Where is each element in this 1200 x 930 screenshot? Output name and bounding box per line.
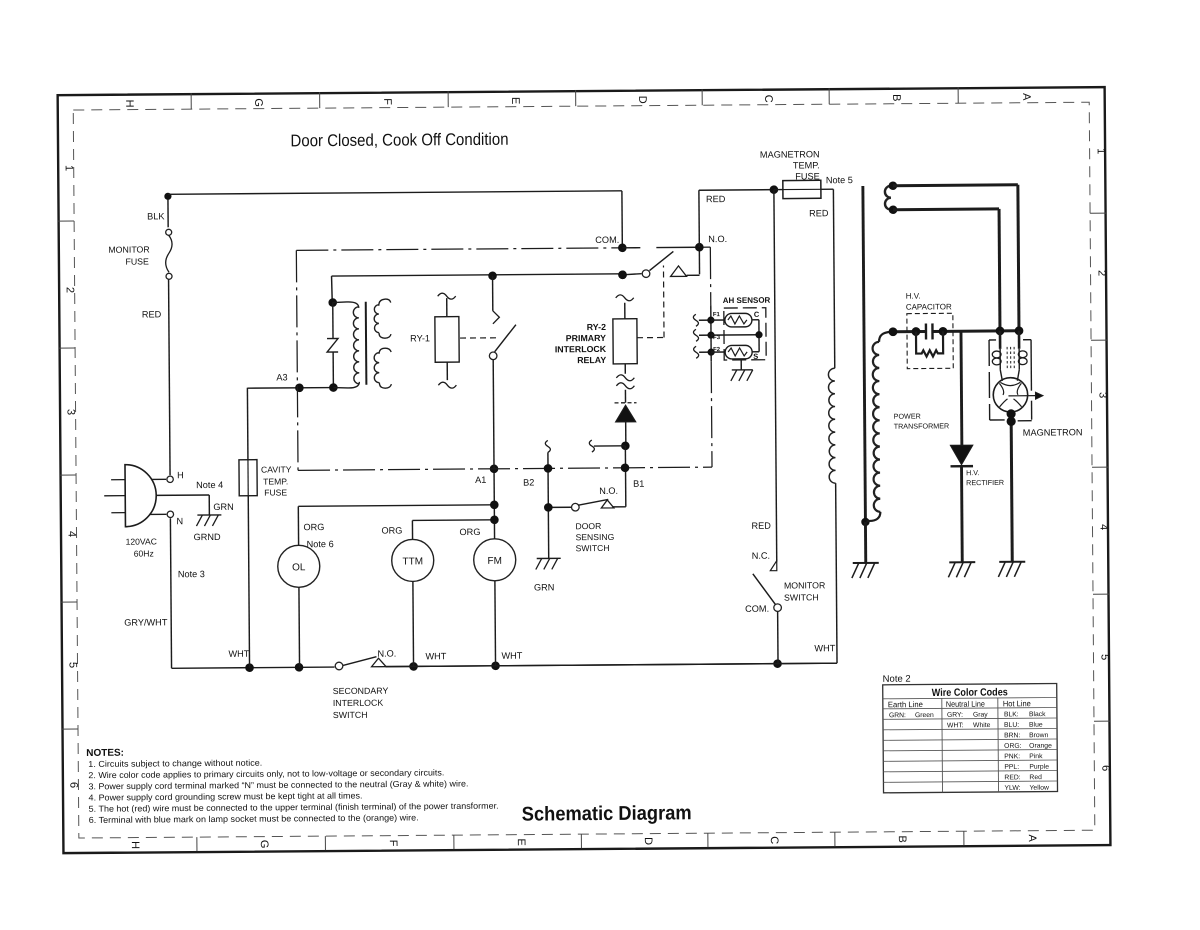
svg-text:SECONDARY: SECONDARY <box>333 686 389 696</box>
svg-text:F: F <box>381 98 393 105</box>
svg-text:1: 1 <box>1095 148 1107 154</box>
svg-text:A: A <box>1026 834 1038 842</box>
svg-text:GRY:: GRY: <box>947 712 963 719</box>
svg-text:CAPACITOR: CAPACITOR <box>906 302 952 311</box>
svg-text:N.O.: N.O. <box>377 649 396 659</box>
svg-text:GRN: GRN <box>534 582 554 592</box>
svg-text:WHT: WHT <box>228 649 249 659</box>
svg-text:F3: F3 <box>713 335 721 341</box>
svg-text:RED: RED <box>706 194 726 204</box>
svg-text:Red: Red <box>1029 774 1042 781</box>
svg-text:BLK: BLK <box>147 211 165 221</box>
svg-text:H.V.: H.V. <box>906 292 921 301</box>
svg-text:BLK:: BLK: <box>1004 711 1019 718</box>
svg-text:GRY/WHT: GRY/WHT <box>124 617 168 627</box>
svg-text:WHT: WHT <box>501 651 522 661</box>
svg-text:4: 4 <box>1097 524 1109 530</box>
svg-text:Gray: Gray <box>973 712 988 719</box>
svg-text:Brown: Brown <box>1029 732 1049 739</box>
svg-text:MONITOR: MONITOR <box>108 244 149 254</box>
svg-text:Note 6: Note 6 <box>307 539 334 549</box>
svg-text:C: C <box>768 836 780 844</box>
svg-text:E: E <box>509 97 521 104</box>
svg-text:2: 2 <box>1096 270 1108 276</box>
svg-text:FUSE: FUSE <box>125 256 149 266</box>
svg-text:F2: F2 <box>713 347 721 353</box>
svg-text:RED:: RED: <box>1004 774 1020 781</box>
svg-text:WHT: WHT <box>425 651 446 661</box>
svg-text:RELAY: RELAY <box>577 355 606 365</box>
svg-text:WHT:: WHT: <box>947 722 964 729</box>
svg-text:TRANSFORMER: TRANSFORMER <box>894 421 950 430</box>
svg-text:H: H <box>123 100 135 108</box>
svg-text:MAGNETRON: MAGNETRON <box>1023 427 1083 437</box>
svg-text:ORG: ORG <box>459 527 480 537</box>
svg-text:4. Power supply cord groundin: 4. Power supply cord grounding screw mus… <box>89 790 363 802</box>
svg-text:RED: RED <box>809 208 829 218</box>
svg-text:BRN:: BRN: <box>1004 732 1020 739</box>
svg-text:D: D <box>636 96 648 104</box>
svg-text:Blue: Blue <box>1029 722 1043 729</box>
svg-text:GRN: GRN <box>213 502 233 512</box>
svg-text:White: White <box>973 722 991 729</box>
svg-text:SWITCH: SWITCH <box>576 543 610 553</box>
svg-text:H: H <box>129 841 141 849</box>
svg-text:POWER: POWER <box>894 412 921 421</box>
svg-text:WHT: WHT <box>814 643 835 653</box>
svg-text:FUSE: FUSE <box>264 487 287 497</box>
svg-text:TEMP.: TEMP. <box>793 160 820 170</box>
svg-text:CAVITY: CAVITY <box>261 464 292 474</box>
svg-text:Black: Black <box>1029 711 1046 718</box>
svg-text:C: C <box>754 310 760 319</box>
svg-text:Earth Line: Earth Line <box>888 700 924 709</box>
svg-text:DOOR: DOOR <box>575 521 601 531</box>
svg-text:E: E <box>515 838 527 845</box>
svg-text:120VAC: 120VAC <box>126 536 157 546</box>
svg-text:B: B <box>896 835 908 842</box>
svg-text:SENSING: SENSING <box>576 532 615 542</box>
svg-text:Purple: Purple <box>1029 764 1049 771</box>
svg-text:5: 5 <box>1098 654 1110 660</box>
svg-text:Pink: Pink <box>1029 753 1043 760</box>
svg-text:B: B <box>890 94 902 101</box>
svg-text:NOTES:: NOTES: <box>86 748 124 759</box>
svg-text:RECTIFIER: RECTIFIER <box>966 478 1004 487</box>
svg-text:Note 4: Note 4 <box>196 480 223 490</box>
svg-text:INTERLOCK: INTERLOCK <box>333 698 384 708</box>
svg-text:N.O.: N.O. <box>708 234 727 244</box>
svg-text:COM.: COM. <box>595 235 619 245</box>
svg-text:Note 3: Note 3 <box>178 569 205 579</box>
svg-text:MONITOR: MONITOR <box>784 580 825 590</box>
svg-text:Door Closed, Cook Off Conditio: Door Closed, Cook Off Condition <box>290 130 508 151</box>
svg-text:G: G <box>252 98 264 107</box>
svg-text:ORG:: ORG: <box>1004 743 1022 750</box>
svg-text:60Hz: 60Hz <box>134 548 154 558</box>
svg-text:AH SENSOR: AH SENSOR <box>723 296 771 305</box>
svg-text:5: 5 <box>66 662 78 668</box>
svg-text:PPL:: PPL: <box>1004 764 1019 771</box>
svg-text:COM.: COM. <box>745 604 769 614</box>
svg-text:MAGNETRON: MAGNETRON <box>760 149 820 159</box>
svg-text:S: S <box>753 352 758 361</box>
svg-text:TEMP.: TEMP. <box>263 476 288 486</box>
svg-text:PNK:: PNK: <box>1004 753 1020 760</box>
svg-text:B1: B1 <box>633 479 644 489</box>
svg-text:BLU:: BLU: <box>1004 722 1019 729</box>
svg-text:Orange: Orange <box>1029 743 1052 750</box>
svg-text:Note 2: Note 2 <box>883 674 911 685</box>
svg-text:N.O.: N.O. <box>599 486 618 496</box>
svg-text:OL: OL <box>292 562 306 573</box>
svg-text:H.V.: H.V. <box>966 468 979 477</box>
svg-text:F1: F1 <box>713 312 721 318</box>
svg-text:1. Circuits subject to change: 1. Circuits subject to change without no… <box>88 758 262 769</box>
svg-text:F: F <box>387 840 399 847</box>
svg-text:SWITCH: SWITCH <box>333 710 368 720</box>
svg-text:C: C <box>762 95 774 103</box>
svg-text:N.C.: N.C. <box>752 551 770 561</box>
svg-text:TTM: TTM <box>402 556 423 567</box>
svg-text:SWITCH: SWITCH <box>784 592 819 602</box>
svg-text:4: 4 <box>65 531 77 537</box>
svg-text:ORG: ORG <box>381 526 402 536</box>
svg-text:A3: A3 <box>276 372 287 382</box>
svg-text:Green: Green <box>915 712 934 719</box>
svg-text:FM: FM <box>487 556 502 567</box>
svg-text:A1: A1 <box>475 475 486 485</box>
svg-text:Yellow: Yellow <box>1029 785 1049 792</box>
svg-text:FUSE: FUSE <box>795 171 820 181</box>
svg-text:B2: B2 <box>523 478 534 488</box>
svg-text:Schematic Diagram: Schematic Diagram <box>522 802 692 825</box>
svg-text:Note 5: Note 5 <box>826 175 853 185</box>
svg-text:ORG: ORG <box>303 522 324 532</box>
svg-text:RED: RED <box>751 521 771 531</box>
svg-text:GRND: GRND <box>194 532 221 542</box>
svg-text:6: 6 <box>1099 765 1111 771</box>
svg-text:Wire Color Codes: Wire Color Codes <box>932 686 1008 699</box>
svg-text:2: 2 <box>64 287 76 293</box>
svg-text:3: 3 <box>1096 392 1108 398</box>
svg-text:1: 1 <box>63 165 75 171</box>
svg-text:RY-2: RY-2 <box>587 322 606 332</box>
svg-text:3: 3 <box>65 409 77 415</box>
svg-text:RED: RED <box>142 309 162 319</box>
svg-text:Neutral Line: Neutral Line <box>946 700 986 709</box>
svg-text:H: H <box>177 470 184 480</box>
svg-text:GRN:: GRN: <box>889 712 906 719</box>
svg-text:G: G <box>258 840 270 849</box>
svg-text:YLW:: YLW: <box>1004 785 1020 792</box>
svg-text:6: 6 <box>67 782 79 788</box>
svg-text:A: A <box>1020 93 1032 101</box>
svg-text:N: N <box>176 516 183 526</box>
svg-text:D: D <box>642 837 654 845</box>
svg-text:Hot Line: Hot Line <box>1003 699 1032 708</box>
svg-text:INTERLOCK: INTERLOCK <box>555 344 607 354</box>
svg-text:PRIMARY: PRIMARY <box>566 333 606 343</box>
svg-text:RY-1: RY-1 <box>410 333 430 343</box>
